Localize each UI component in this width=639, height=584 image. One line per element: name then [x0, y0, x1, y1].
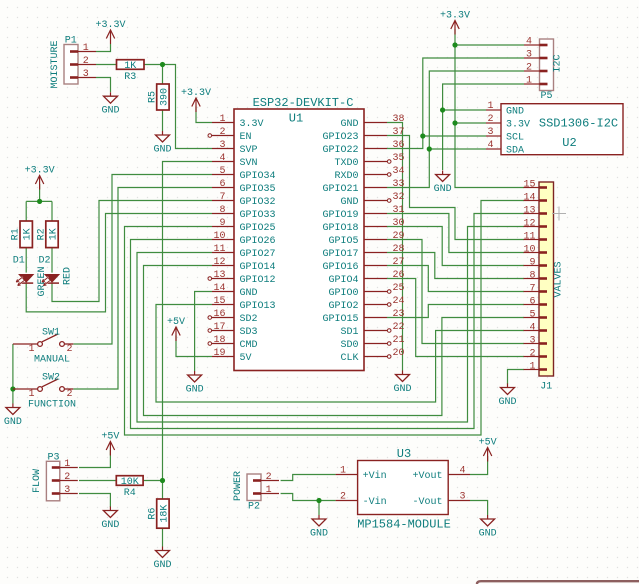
- svg-text:SCL: SCL: [506, 133, 524, 144]
- svg-text:GPIO25: GPIO25: [240, 223, 276, 234]
- wire GPIO4 to J1.2: [387, 279, 524, 357]
- U1 pin 36 GPIO22: [322, 140, 404, 156]
- U1 pin 7 GPIO32: [212, 192, 276, 208]
- wire GPIO21 SDA to U2.4: [387, 149, 486, 188]
- svg-text:5: 5: [529, 309, 535, 320]
- svg-text:17: 17: [213, 322, 225, 333]
- wire P3.1 to +5V: [79, 450, 110, 468]
- svg-text:GPIO12: GPIO12: [240, 275, 276, 286]
- svg-text:GPIO18: GPIO18: [322, 223, 358, 234]
- svg-text:4: 4: [488, 140, 494, 151]
- wire GPIO19 to J1.10: [387, 214, 524, 253]
- svg-text:5: 5: [219, 166, 225, 177]
- svg-text:+Vout: +Vout: [412, 471, 442, 482]
- LED D1: [13, 256, 34, 286]
- svg-text:2: 2: [66, 344, 72, 355]
- wire GPIO17 to J1.8: [387, 253, 524, 279]
- svg-text:15: 15: [523, 179, 535, 190]
- wire P2.2 to +Vin: [281, 475, 336, 481]
- wire R3 to node: [144, 64, 163, 66]
- svg-text:GPIO27: GPIO27: [240, 249, 276, 260]
- wire SW1.1 to GND: [12, 344, 14, 404]
- wire GPIO13 to J1.4: [156, 305, 524, 403]
- U1 pin 3 SVP: [212, 140, 258, 156]
- wire rail to P5.4: [455, 44, 524, 46]
- svg-text:SVN: SVN: [240, 158, 258, 169]
- svg-text:-Vout: -Vout: [412, 497, 442, 508]
- svg-text:GND: GND: [340, 119, 358, 130]
- power +5V at U1 pin19: [167, 317, 185, 341]
- svg-text:24: 24: [393, 296, 405, 307]
- svg-text:2: 2: [488, 114, 494, 125]
- svg-text:GPIO23: GPIO23: [322, 132, 358, 143]
- sheet cursor cross: [552, 207, 566, 221]
- resistor R1: [11, 221, 34, 248]
- svg-text:P1: P1: [65, 35, 77, 46]
- U1 pin 26 GPIO4: [328, 270, 404, 286]
- svg-text:6: 6: [529, 296, 535, 307]
- connector P3 FLOW: [46, 461, 77, 501]
- svg-text:15: 15: [213, 296, 225, 307]
- wire GPIO27 to J1.12: [137, 227, 524, 423]
- svg-text:1K: 1K: [48, 228, 59, 240]
- wire node to R6: [162, 481, 164, 500]
- svg-text:GND: GND: [393, 384, 411, 395]
- wire SVN to divider: [163, 162, 213, 481]
- svg-text:GND: GND: [340, 197, 358, 208]
- wire GPIO14 to J1.5: [144, 266, 525, 416]
- svg-text:13: 13: [523, 205, 535, 216]
- U1 pin 14 GND: [212, 283, 258, 299]
- svg-text:2: 2: [83, 56, 89, 67]
- svg-text:16: 16: [213, 309, 225, 320]
- svg-text:3: 3: [526, 50, 532, 61]
- svg-text:GND: GND: [4, 417, 22, 428]
- wire GPIO5 to J1.3: [387, 240, 524, 344]
- wire R5 to GND: [162, 110, 164, 131]
- svg-text:POWER: POWER: [233, 471, 244, 501]
- svg-text:GPIO21: GPIO21: [322, 184, 358, 195]
- svg-text:GPIO17: GPIO17: [322, 249, 358, 260]
- U1 pin 17 SD3: [208, 322, 258, 338]
- wire SW2.2 to GPIO35: [73, 188, 212, 390]
- svg-text:10: 10: [523, 244, 535, 255]
- U1 pin 25 GPIO0: [328, 283, 404, 299]
- svg-text:GPIO34: GPIO34: [240, 171, 276, 182]
- junction -Vin GND: [316, 498, 321, 503]
- connector P2 POWER: [247, 474, 279, 501]
- resistor R5: [147, 84, 170, 110]
- wire GPIO15 to J1.6: [387, 305, 524, 318]
- U1 pin 35 TXD0: [334, 153, 404, 169]
- svg-text:14: 14: [213, 283, 225, 294]
- svg-text:2: 2: [64, 472, 70, 483]
- junction moisture node: [160, 62, 165, 67]
- svg-text:MANUAL: MANUAL: [34, 355, 70, 366]
- svg-text:J1: J1: [540, 382, 552, 393]
- U1 pin 21 SD0: [340, 335, 404, 351]
- wire D2 to GPIO32: [52, 201, 212, 302]
- svg-text:FLOW: FLOW: [32, 469, 43, 493]
- svg-text:23: 23: [393, 309, 405, 320]
- svg-text:GND: GND: [186, 385, 204, 396]
- connector P1 MOISTURE: [64, 45, 96, 85]
- U1 pin 1 3.3V: [212, 114, 264, 130]
- U1 pin 31 GPIO19: [322, 205, 404, 221]
- power +5V at U3 +Vout: [479, 437, 497, 461]
- svg-text:GND: GND: [101, 520, 119, 531]
- U2 pin 3 SCL: [486, 127, 524, 143]
- junction GND U2.1: [440, 107, 445, 112]
- wire J1.1 to GND: [508, 370, 525, 385]
- svg-text:1K: 1K: [124, 61, 136, 72]
- svg-text:4: 4: [219, 153, 225, 164]
- wire P2.1 to -Vin: [281, 494, 336, 501]
- U1 pin 6 GPIO35: [212, 179, 276, 195]
- wire rail to R1: [25, 201, 27, 221]
- svg-text:MOISTURE: MOISTURE: [50, 40, 61, 88]
- wire rail to R2: [51, 201, 53, 221]
- svg-text:GPIO13: GPIO13: [240, 301, 276, 312]
- U2 pin 4 SDA: [486, 140, 524, 156]
- svg-text:GPIO26: GPIO26: [240, 236, 276, 247]
- svg-text:CLK: CLK: [340, 353, 358, 364]
- svg-text:GPIO19: GPIO19: [322, 210, 358, 221]
- wire -Vin node to GND: [318, 501, 320, 516]
- svg-text:ESP32-DEVKIT-C: ESP32-DEVKIT-C: [253, 96, 354, 110]
- wire GPIO25 to J1.14: [125, 201, 525, 436]
- svg-text:38: 38: [393, 114, 405, 125]
- svg-text:29: 29: [393, 231, 405, 242]
- svg-text:D1: D1: [13, 256, 25, 267]
- U1 pin 18 CMD: [208, 335, 258, 351]
- U1 pin 27 GPIO16: [322, 257, 404, 273]
- U1 pin 11 GPIO27: [212, 244, 276, 260]
- svg-text:11: 11: [213, 244, 225, 255]
- svg-text:+5V: +5V: [167, 317, 185, 328]
- U1 pin 13 GPIO12: [208, 270, 276, 286]
- wire R6 to GND: [162, 528, 164, 546]
- svg-text:3: 3: [83, 69, 89, 80]
- junction rail P5.4: [452, 42, 457, 47]
- svg-text:36: 36: [393, 140, 405, 151]
- svg-text:1: 1: [526, 76, 532, 87]
- svg-text:7: 7: [219, 192, 225, 203]
- svg-text:GPIO22: GPIO22: [322, 145, 358, 156]
- wire +3.3V rail to J1.15: [455, 29, 524, 188]
- svg-text:1: 1: [219, 114, 225, 125]
- switch SW2 FUNCTION: [13, 373, 76, 411]
- wire -Vout to GND: [470, 501, 488, 516]
- svg-text:GND: GND: [101, 106, 119, 117]
- wire U1 pin14 to GND: [195, 292, 212, 372]
- svg-text:RED: RED: [63, 267, 74, 285]
- svg-text:33: 33: [393, 179, 405, 190]
- wire R2 to D2: [51, 248, 53, 273]
- svg-text:GND: GND: [310, 529, 328, 540]
- resistor R4: [116, 476, 143, 499]
- ground at P1.3: [101, 92, 119, 117]
- wire GPIO23 to J1.11: [387, 136, 524, 240]
- svg-text:30: 30: [393, 218, 405, 229]
- svg-text:SDA: SDA: [506, 146, 524, 157]
- svg-text:RXD0: RXD0: [334, 171, 358, 182]
- svg-text:GPIO35: GPIO35: [240, 184, 276, 195]
- svg-text:U2: U2: [562, 136, 576, 150]
- svg-text:P2: P2: [248, 502, 260, 513]
- svg-text:1K: 1K: [23, 228, 34, 240]
- svg-text:22: 22: [393, 322, 405, 333]
- U1 pin 29 GPIO5: [328, 231, 404, 247]
- U1 pin 34 RXD0: [334, 166, 404, 182]
- svg-text:26: 26: [393, 270, 405, 281]
- svg-text:10: 10: [213, 231, 225, 242]
- svg-text:2: 2: [526, 63, 532, 74]
- svg-text:14: 14: [523, 192, 535, 203]
- U1 pin 28 GPIO17: [322, 244, 404, 260]
- wire GND to U2.1: [443, 109, 486, 111]
- svg-text:9: 9: [529, 257, 535, 268]
- wire D1 to GPIO33: [26, 214, 212, 312]
- svg-text:12: 12: [523, 218, 535, 229]
- junction rail U2.2: [452, 120, 457, 125]
- svg-text:SD1: SD1: [340, 327, 358, 338]
- svg-text:7: 7: [529, 283, 535, 294]
- ground at P3.3: [101, 507, 119, 532]
- wire R1 to D1: [25, 248, 27, 273]
- wire P5.2 to SDA node: [429, 71, 524, 149]
- svg-text:R3: R3: [124, 72, 136, 83]
- connector P5 I2C: [524, 39, 554, 91]
- svg-text:3: 3: [219, 140, 225, 151]
- svg-text:CMD: CMD: [240, 340, 258, 351]
- svg-text:8: 8: [529, 270, 535, 281]
- wire P3.3 to GND: [79, 494, 110, 508]
- svg-text:1: 1: [488, 101, 494, 112]
- svg-text:1: 1: [529, 361, 535, 372]
- svg-text:GND: GND: [153, 560, 171, 571]
- svg-text:19: 19: [213, 348, 225, 359]
- IC U3 MP1584-MODULE: [357, 447, 451, 532]
- svg-text:2: 2: [66, 389, 72, 400]
- svg-text:U1: U1: [289, 112, 303, 126]
- U1 pin 33 GPIO21: [322, 179, 404, 195]
- svg-text:10K: 10K: [121, 477, 139, 488]
- wire rail to U2.2: [455, 122, 486, 124]
- svg-text:4: 4: [529, 322, 535, 333]
- svg-text:MP1584-MODULE: MP1584-MODULE: [357, 518, 451, 532]
- wire P5.3 to SCL node: [423, 58, 524, 136]
- U1 pin 32 GND: [340, 192, 404, 208]
- svg-text:VALVES: VALVES: [554, 261, 565, 297]
- svg-text:GPIO14: GPIO14: [240, 262, 276, 273]
- junction switch GND: [10, 386, 15, 391]
- U1 pin 2 EN: [208, 127, 252, 143]
- svg-text:2: 2: [219, 127, 225, 138]
- ground at J1.1: [498, 384, 516, 409]
- svg-text:18: 18: [213, 335, 225, 346]
- svg-text:GPIO2: GPIO2: [328, 301, 358, 312]
- svg-text:1: 1: [266, 485, 272, 496]
- svg-text:1: 1: [28, 389, 34, 400]
- svg-text:SD3: SD3: [240, 327, 258, 338]
- svg-text:1: 1: [83, 43, 89, 54]
- ground at U1 pin14: [186, 371, 204, 396]
- svg-text:SSD1306-I2C: SSD1306-I2C: [539, 117, 618, 131]
- svg-text:I2C: I2C: [553, 54, 564, 72]
- svg-text:9: 9: [219, 218, 225, 229]
- svg-text:-Vin: -Vin: [363, 496, 387, 508]
- U3 pin 2 -Vin: [336, 491, 387, 508]
- ground at P2: [310, 515, 328, 540]
- U1 pin 22 SD1: [340, 322, 404, 338]
- svg-text:3: 3: [488, 127, 494, 138]
- svg-text:R2: R2: [37, 228, 48, 240]
- svg-text:1: 1: [64, 459, 70, 470]
- U2 pin 2 3.3V: [486, 114, 530, 130]
- svg-text:+3.3V: +3.3V: [95, 20, 125, 31]
- wire P1.2 to R3: [96, 64, 117, 66]
- wire GPIO22 SCL to U2.3: [387, 136, 486, 149]
- svg-text:GPIO0: GPIO0: [328, 288, 358, 299]
- svg-text:P3: P3: [47, 452, 59, 463]
- IC U2 SSD1306-I2C: [501, 104, 623, 155]
- svg-text:2: 2: [340, 491, 346, 502]
- svg-text:GPIO15: GPIO15: [322, 314, 358, 325]
- svg-text:3: 3: [529, 335, 535, 346]
- svg-text:GPIO5: GPIO5: [328, 236, 358, 247]
- resistor R2: [37, 221, 60, 248]
- svg-text:TXD0: TXD0: [334, 158, 358, 169]
- U1 pin 12 GPIO14: [212, 257, 276, 273]
- U1 pin 9 GPIO25: [212, 218, 276, 234]
- LED D2: [39, 256, 60, 286]
- sheet border: [477, 581, 639, 584]
- svg-text:R1: R1: [11, 228, 22, 240]
- junction SDA: [427, 146, 432, 151]
- wire R1-R2 rail: [26, 200, 52, 202]
- wire P1.1 to +3.3V: [96, 44, 111, 52]
- svg-text:1: 1: [28, 344, 34, 355]
- junction LED rail: [37, 199, 42, 204]
- U2 pin 1 GND: [486, 101, 524, 117]
- wire U1 pin38 to GND: [387, 123, 403, 371]
- svg-text:+Vin: +Vin: [363, 470, 387, 482]
- junction divider node: [160, 478, 165, 483]
- wire +5V to U1 pin19: [176, 336, 212, 357]
- ground at U2: [434, 171, 452, 196]
- wire SW1.2 to GPIO34: [73, 175, 212, 345]
- svg-text:EN: EN: [240, 132, 252, 143]
- power +3.3V at U1 pin1: [181, 88, 211, 112]
- svg-text:2: 2: [266, 472, 272, 483]
- svg-text:31: 31: [393, 205, 405, 216]
- wire node to R5: [162, 65, 164, 85]
- wire moisture node to SVP: [163, 65, 213, 149]
- svg-text:1: 1: [340, 465, 346, 476]
- svg-text:SW2: SW2: [42, 373, 60, 384]
- svg-text:4: 4: [526, 37, 532, 48]
- U1 pin 15 GPIO13: [212, 296, 276, 312]
- U1 pin 16 SD2: [208, 309, 258, 325]
- svg-text:+3.3V: +3.3V: [440, 10, 470, 21]
- svg-text:SD0: SD0: [340, 340, 358, 351]
- svg-text:SW1: SW1: [42, 328, 60, 339]
- wire GPIO18 to J1.9: [387, 227, 524, 266]
- svg-text:4: 4: [460, 465, 466, 476]
- svg-text:3.3V: 3.3V: [240, 119, 264, 130]
- U1 pin 30 GPIO18: [322, 218, 404, 234]
- svg-text:12: 12: [213, 257, 225, 268]
- svg-text:GND: GND: [498, 397, 516, 408]
- switch SW1 MANUAL: [13, 328, 73, 366]
- ground at R5: [153, 131, 171, 156]
- junction SCL: [420, 133, 425, 138]
- svg-text:21: 21: [393, 335, 405, 346]
- svg-text:GPIO4: GPIO4: [328, 275, 358, 286]
- wire GPIO16 to J1.7: [387, 266, 524, 292]
- U3 pin 3 -Vout: [412, 491, 470, 508]
- ground at switches: [4, 404, 22, 429]
- svg-text:25: 25: [393, 283, 405, 294]
- svg-text:SD2: SD2: [240, 314, 258, 325]
- U1 pin 24 GPIO2: [328, 296, 404, 312]
- U1 pin 8 GPIO33: [212, 205, 276, 221]
- U1 pin 37 GPIO23: [322, 127, 404, 143]
- svg-text:FUNCTION: FUNCTION: [28, 400, 76, 411]
- ground at U3 -Vout: [479, 515, 497, 540]
- resistor R6: [147, 499, 170, 528]
- svg-text:P5: P5: [540, 91, 552, 102]
- svg-text:13: 13: [213, 270, 225, 281]
- power +5V at P3.1: [101, 431, 119, 455]
- svg-text:+5V: +5V: [479, 437, 497, 448]
- IC U1 ESP32-DEVKIT-C: [234, 96, 364, 371]
- svg-text:35: 35: [393, 153, 405, 164]
- svg-text:34: 34: [393, 166, 405, 177]
- svg-text:2: 2: [529, 348, 535, 359]
- svg-text:+5V: +5V: [101, 431, 119, 442]
- ground at R6: [153, 547, 171, 572]
- svg-text:+3.3V: +3.3V: [181, 88, 211, 99]
- U1 pin 19 5V: [212, 348, 252, 364]
- power +3.3V at R1 R2: [25, 165, 55, 189]
- svg-text:D2: D2: [39, 256, 51, 267]
- U1 pin 38 GND: [340, 114, 404, 130]
- connector J1 VALVES: [524, 182, 554, 376]
- svg-text:GND: GND: [240, 288, 258, 299]
- svg-text:U3: U3: [397, 447, 411, 461]
- U1 pin 10 GPIO26: [212, 231, 276, 247]
- ground at U1 pin38: [393, 371, 411, 396]
- svg-text:R5: R5: [147, 91, 158, 103]
- svg-text:28: 28: [393, 244, 405, 255]
- wire P1.3 to GND: [96, 78, 111, 93]
- U1 pin 20 CLK: [340, 348, 404, 364]
- svg-text:SVP: SVP: [240, 145, 258, 156]
- wire P5.1 to GND: [443, 84, 524, 170]
- svg-text:3: 3: [460, 491, 466, 502]
- svg-text:27: 27: [393, 257, 405, 268]
- svg-text:18K: 18K: [159, 505, 170, 523]
- svg-text:GPIO16: GPIO16: [322, 262, 358, 273]
- svg-text:GPIO33: GPIO33: [240, 210, 276, 221]
- svg-text:11: 11: [523, 231, 535, 242]
- wire +Vout to +5V: [470, 456, 488, 475]
- svg-text:6: 6: [219, 179, 225, 190]
- svg-text:GND: GND: [153, 145, 171, 156]
- svg-text:GND: GND: [479, 529, 497, 540]
